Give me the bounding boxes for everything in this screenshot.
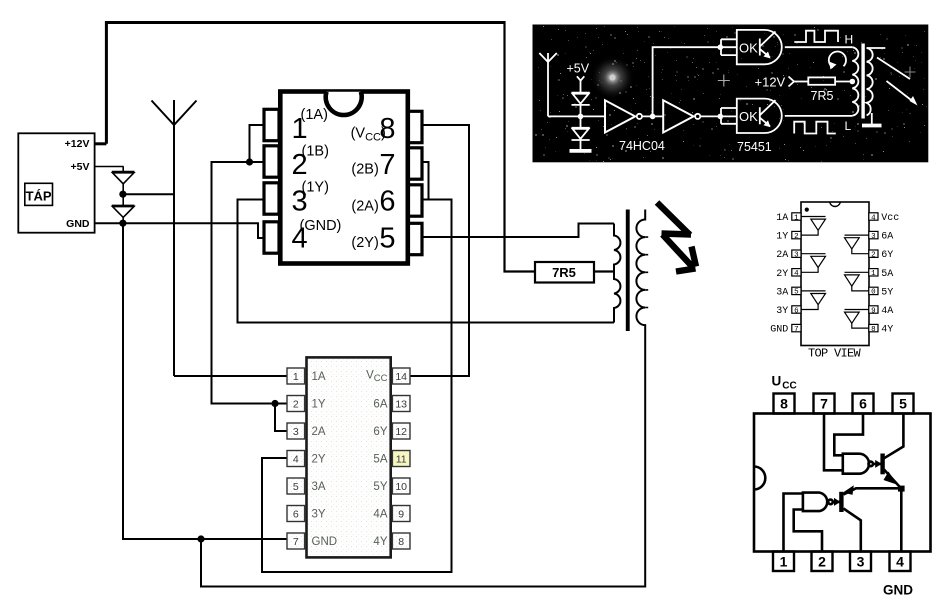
svg-text:5A: 5A: [373, 454, 387, 466]
svg-text:OK: OK: [739, 41, 758, 56]
svg-text:(GND): (GND): [300, 218, 342, 234]
svg-text:3A: 3A: [312, 481, 326, 493]
svg-text:4A: 4A: [373, 509, 387, 521]
svg-text:4A: 4A: [881, 306, 893, 317]
svg-text:4Y: 4Y: [881, 325, 893, 336]
svg-text:6A: 6A: [881, 232, 893, 243]
svg-text:OK: OK: [739, 109, 758, 124]
svg-text:2: 2: [818, 554, 826, 570]
svg-text:6A: 6A: [373, 399, 387, 411]
svg-text:7R5: 7R5: [552, 265, 576, 280]
svg-text:(2A): (2A): [351, 198, 378, 214]
svg-text:GND: GND: [66, 218, 90, 230]
svg-text:2: 2: [293, 398, 299, 410]
svg-text:GND: GND: [312, 536, 338, 548]
svg-text:5Y: 5Y: [373, 481, 387, 493]
svg-text:1Y: 1Y: [776, 232, 788, 243]
svg-text:11: 11: [396, 453, 407, 465]
svg-text:1A: 1A: [312, 371, 326, 383]
svg-text:4: 4: [794, 270, 799, 278]
svg-text:7: 7: [820, 396, 828, 412]
svg-text:1Y: 1Y: [312, 399, 326, 411]
svg-text:1: 1: [293, 371, 299, 383]
svg-text:5: 5: [794, 289, 799, 297]
svg-text:2: 2: [794, 233, 799, 241]
svg-text:4: 4: [293, 453, 299, 465]
svg-text:3Y: 3Y: [312, 509, 326, 521]
svg-text:2A: 2A: [312, 426, 326, 438]
svg-text:7: 7: [293, 536, 299, 548]
svg-text:L: L: [845, 119, 852, 133]
svg-text:7: 7: [794, 326, 799, 334]
svg-text:(1A): (1A): [301, 107, 328, 123]
svg-text:7: 7: [379, 149, 395, 181]
svg-text:5: 5: [293, 481, 299, 493]
svg-text:5A: 5A: [881, 269, 893, 280]
svg-text:6: 6: [794, 307, 799, 315]
svg-text:7R5: 7R5: [811, 89, 834, 103]
svg-text:3: 3: [293, 426, 299, 438]
svg-text:Vcc: Vcc: [881, 213, 899, 224]
svg-text:1: 1: [780, 554, 788, 570]
svg-text:3: 3: [871, 233, 876, 241]
svg-text:2Y: 2Y: [776, 269, 788, 280]
svg-text:(1Y): (1Y): [302, 179, 329, 195]
svg-text:4: 4: [896, 554, 904, 570]
svg-text:1: 1: [794, 214, 799, 222]
svg-text:74HC04: 74HC04: [619, 139, 665, 153]
svg-text:GND: GND: [770, 325, 788, 336]
svg-text:12: 12: [395, 426, 407, 438]
svg-text:+5V: +5V: [71, 161, 90, 173]
svg-text:8: 8: [780, 396, 788, 412]
svg-text:GND: GND: [883, 583, 913, 598]
svg-text:(2B): (2B): [351, 162, 378, 178]
svg-text:8: 8: [398, 536, 404, 548]
svg-text:8: 8: [871, 326, 876, 334]
svg-text:75451: 75451: [737, 140, 772, 154]
svg-text:TÁP: TÁP: [26, 189, 52, 204]
svg-text:+12V: +12V: [65, 138, 90, 150]
svg-text:4Y: 4Y: [373, 536, 387, 548]
svg-text:6: 6: [859, 396, 867, 412]
svg-text:5Y: 5Y: [881, 287, 893, 298]
svg-text:10: 10: [395, 481, 407, 493]
svg-text:H: H: [845, 33, 854, 47]
svg-text:6Y: 6Y: [373, 426, 387, 438]
svg-text:13: 13: [395, 398, 407, 410]
svg-text:1A: 1A: [776, 213, 788, 224]
svg-text:5: 5: [899, 396, 907, 412]
svg-text:2: 2: [871, 252, 876, 260]
svg-text:6Y: 6Y: [881, 250, 893, 261]
svg-text:9: 9: [871, 307, 876, 315]
svg-text:(1B): (1B): [302, 143, 329, 159]
svg-text:+12V: +12V: [755, 75, 786, 90]
svg-text:(2Y): (2Y): [351, 235, 378, 251]
svg-text:1: 1: [871, 270, 876, 278]
svg-text:3Y: 3Y: [776, 306, 788, 317]
svg-text:9: 9: [398, 508, 404, 520]
svg-text:6: 6: [293, 508, 299, 520]
svg-text:0: 0: [871, 289, 876, 297]
svg-text:3A: 3A: [776, 287, 788, 298]
svg-text:+5V: +5V: [567, 62, 590, 76]
svg-text:4: 4: [871, 214, 876, 222]
svg-text:3: 3: [857, 554, 865, 570]
svg-text:2A: 2A: [776, 250, 788, 261]
svg-text:6: 6: [379, 186, 395, 218]
svg-text:3: 3: [794, 252, 799, 260]
svg-text:2Y: 2Y: [312, 454, 326, 466]
svg-text:14: 14: [395, 371, 407, 383]
svg-text:TOP VIEW: TOP VIEW: [808, 347, 862, 361]
svg-text:5: 5: [379, 223, 395, 255]
